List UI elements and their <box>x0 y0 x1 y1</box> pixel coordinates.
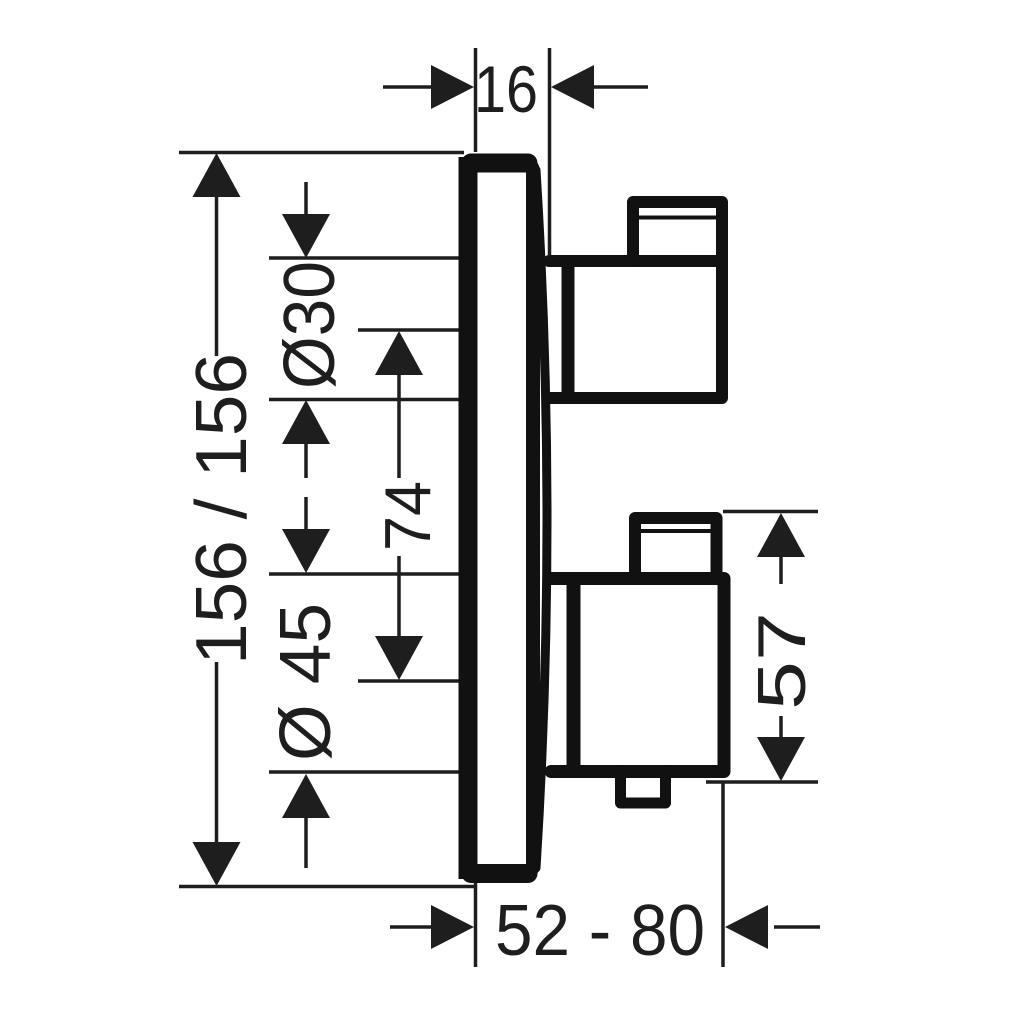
wire ext line C (knob45 top) <box>269 572 462 576</box>
upper grip parting line <box>639 216 716 220</box>
plate escutcheon outline <box>466 161 533 875</box>
svg-text:52 - 80: 52 - 80 <box>495 891 705 971</box>
svg-text:Ø 45: Ø 45 <box>266 603 346 761</box>
wire stub below dia45 bottom arrow <box>304 813 308 868</box>
arrow 156 down <box>193 842 241 886</box>
wire ext line 16 right x549 <box>548 48 552 255</box>
upper knob base edge <box>562 262 575 397</box>
wire dim line 16 left <box>383 85 433 89</box>
arrow 16 right-side pointing left <box>551 65 594 109</box>
arrow 74 down <box>375 636 423 680</box>
wire ext line 52-80 left x475 <box>474 883 478 967</box>
upper knob grip <box>633 202 722 260</box>
lower knob grip <box>635 518 717 578</box>
wire dim line 57 upper segment <box>779 556 783 584</box>
wire ext line E (74 top) <box>358 328 462 332</box>
lower knob base edge <box>567 580 581 770</box>
arrow dia45 up <box>282 774 330 818</box>
wire dim line 57 lower segment <box>779 716 783 740</box>
wire dim line 52-80 right <box>774 925 820 929</box>
wire ext line 16 left x475 <box>474 48 478 152</box>
wire dim line 156 lower segment <box>215 662 219 845</box>
wire ext line 52-80 right x723 <box>721 782 725 967</box>
svg-text:Ø30: Ø30 <box>270 261 350 389</box>
svg-text:156 / 156: 156 / 156 <box>182 353 262 665</box>
plate front face arc <box>536 170 547 868</box>
wire ext line A (knob30 top) <box>269 256 462 260</box>
wire stub above dia30 top arrow <box>304 182 308 218</box>
lower grip parting line <box>639 529 711 533</box>
plate top edge <box>471 154 528 173</box>
wire stub below dia30 bottom arrow <box>304 440 308 478</box>
wire dim line 52-80 left <box>390 925 432 929</box>
plate wall-side edge <box>459 157 478 879</box>
wire dim line 74 lower segment <box>397 556 401 637</box>
arrow 57 up <box>757 513 805 557</box>
arrow dia30 up <box>282 400 330 444</box>
wire ext line B (knob30 bottom) <box>269 398 462 402</box>
wire dim line 156 upper segment <box>215 196 219 356</box>
svg-text:57: 57 <box>744 612 820 710</box>
wire ext line 57 top y512 <box>723 510 818 514</box>
wire ext line D (knob45 bottom) <box>269 770 462 774</box>
arrow dia45 down <box>282 529 330 573</box>
arrow 52-80 pointing right <box>431 905 474 949</box>
lower knob body <box>551 579 724 772</box>
wire dim line 16 right <box>592 85 648 89</box>
wire ext line 57 bottom y782 <box>706 780 818 784</box>
svg-text:74: 74 <box>371 481 444 551</box>
wire bottom extension line y886 <box>179 885 476 889</box>
arrow dia30 down <box>282 214 330 258</box>
wire dim line 74 upper segment <box>397 373 401 478</box>
arrow 156 up <box>193 153 241 197</box>
arrow 16 left-side pointing right <box>431 65 474 109</box>
upper knob body <box>549 261 722 398</box>
wire stub above dia45 top arrow <box>304 497 308 533</box>
wire ext line F (74 bottom) <box>358 679 462 683</box>
svg-text:16: 16 <box>474 52 538 126</box>
arrow 74 up <box>375 331 423 375</box>
arrow 52-80 pointing left <box>725 905 768 949</box>
plate bottom edge <box>471 864 528 883</box>
lower knob bottom tab <box>621 771 666 803</box>
wire top extension line y152 <box>179 151 464 155</box>
arrow 57 down <box>757 737 805 781</box>
